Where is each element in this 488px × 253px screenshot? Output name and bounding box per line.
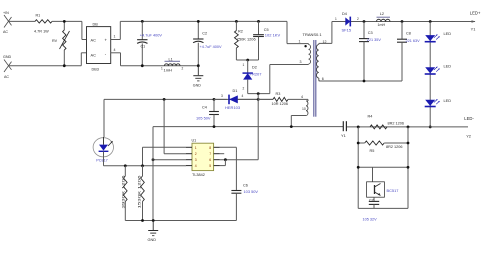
svg-text:4: 4 (114, 48, 116, 52)
wire pin5 tie (220, 160, 226, 166)
svg-text:AC: AC (3, 30, 8, 34)
wire Q1 top row (358, 166, 408, 168)
svg-text:105 32V: 105 32V (363, 218, 378, 222)
svg-text:HER103: HER103 (225, 105, 241, 110)
svg-text:LED: LED (444, 98, 452, 103)
junction C2 top (197, 20, 200, 23)
svg-text:BC517: BC517 (387, 188, 399, 193)
led LED3 (425, 98, 452, 107)
svg-text:C8: C8 (406, 32, 411, 36)
svg-text:4: 4 (195, 164, 197, 168)
capacitor C7 (363, 197, 380, 221)
svg-text:U1: U1 (192, 139, 197, 143)
capacitor C1 (137, 21, 162, 65)
svg-text:C7: C7 (369, 198, 374, 202)
svg-text:GND: GND (3, 55, 12, 59)
junction C1 top (141, 20, 144, 23)
wire gnd drop (152, 127, 154, 221)
svg-text:L1: L1 (169, 57, 173, 61)
svg-text:AC: AC (91, 37, 97, 42)
svg-text:Y1: Y1 (341, 133, 346, 138)
wire sense bottom row (358, 207, 408, 209)
diode D4 (335, 12, 359, 33)
wire top rail HV+ (120, 20, 287, 22)
svg-text:+IN: +IN (3, 11, 9, 15)
resistor R5 (358, 141, 408, 153)
port LED- label (464, 116, 474, 138)
junction R4 right (407, 126, 410, 129)
svg-text:1: 1 (299, 39, 301, 43)
junction VCC-pin2 riser (163, 98, 166, 101)
junction R5 left (357, 142, 360, 145)
svg-text:R2: R2 (238, 29, 243, 33)
svg-text:C5: C5 (264, 28, 269, 32)
svg-text:Y1: Y1 (471, 26, 476, 31)
junction C2 bottom (197, 64, 200, 67)
svg-text:5: 5 (209, 164, 211, 168)
wire pin7 stub (220, 153, 225, 155)
svg-text:1: 1 (114, 35, 116, 39)
svg-text:RV: RV (52, 39, 58, 43)
capacitor C2 (193, 21, 222, 65)
svg-text:C1: C1 (141, 45, 146, 49)
ic U1 TL3842 (186, 139, 220, 177)
port +IN (AC input connector X1) (3, 11, 12, 34)
resistor R4 (368, 115, 404, 129)
svg-text:221 35V: 221 35V (367, 38, 382, 42)
svg-text:AC: AC (91, 53, 97, 58)
wire primary gnd rail (153, 126, 343, 128)
svg-text:1mH: 1mH (378, 23, 386, 27)
svg-text:D4: D4 (342, 12, 347, 16)
junction gnd rail R7 (141, 219, 144, 222)
svg-text:Y2: Y2 (466, 134, 471, 139)
wire bridge out- (111, 48, 121, 66)
diode D2 (243, 60, 263, 94)
svg-text:D2: D2 (252, 65, 257, 69)
svg-text:3930K 1206: 3930K 1206 (120, 176, 125, 209)
wire pin1 (143, 147, 187, 166)
junction C5 top (257, 20, 260, 23)
svg-text:3: 3 (221, 94, 223, 98)
wire L-in top (9, 20, 36, 22)
led LED1 (425, 31, 452, 42)
diode D1 (214, 89, 258, 110)
svg-text:103 50V: 103 50V (244, 189, 259, 194)
svg-text:1: 1 (335, 17, 337, 21)
svg-text:4: 4 (242, 94, 244, 98)
svg-text:105 50V: 105 50V (196, 116, 211, 121)
svg-text:3: 3 (300, 60, 302, 64)
svg-text:R3: R3 (276, 92, 281, 96)
wire secondary gnd rail (319, 80, 402, 82)
transformer T1 TRANS0.1 (291, 22, 332, 127)
wire bridge out+ (111, 21, 121, 39)
junction LED column top (429, 20, 432, 23)
svg-text:C6: C6 (243, 183, 248, 187)
junction aux node (257, 92, 260, 95)
junction LED column bottom (429, 126, 432, 129)
junction C8 top (401, 20, 404, 23)
svg-text:2: 2 (357, 17, 359, 21)
resistor R1 (34, 13, 52, 33)
varistor RV (52, 21, 70, 65)
svg-text:4.7R 1W: 4.7R 1W (34, 29, 49, 33)
optocoupler U2 PC817 (93, 137, 113, 163)
svg-text:2: 2 (182, 67, 184, 71)
svg-text:C4: C4 (202, 105, 207, 109)
svg-text:7: 7 (209, 152, 211, 156)
junction C3 bottom (363, 80, 366, 83)
junction C4 bottom (213, 125, 216, 128)
wire sense right vert (407, 127, 409, 208)
svg-text:1: 1 (243, 63, 245, 67)
wire pin2 riser (164, 99, 186, 153)
svg-text:DB: DB (93, 23, 99, 27)
svg-text:750K 1206: 750K 1206 (237, 37, 256, 42)
svg-text:LED: LED (444, 64, 452, 69)
junction opto-R7 (141, 164, 144, 167)
wire sense left vert (357, 127, 359, 208)
junction C3 top (363, 20, 366, 23)
capacitor C6 (231, 147, 258, 220)
wire R1 to bridge (52, 20, 82, 22)
svg-text:1530K 1206: 1530K 1206 (136, 176, 141, 209)
wire bottom rail HV- (121, 65, 199, 67)
transistor Q1 BC517 (367, 167, 399, 197)
port GND (AC input connector X2) (3, 55, 12, 79)
svg-text:2: 2 (243, 87, 245, 91)
resistor R2 (235, 21, 256, 60)
wire LED column (429, 22, 431, 127)
junction aux return (290, 125, 293, 128)
svg-text:3: 3 (195, 158, 197, 162)
junction RV top (63, 20, 66, 23)
inductor L2 (377, 12, 391, 27)
node polarity dot xfmr primary (304, 45, 306, 47)
capacitor C4 (196, 99, 219, 126)
wire out riser (257, 94, 259, 160)
port LED+ label (470, 11, 481, 32)
junction snubber-D2 (246, 59, 249, 62)
wire opto bottom (104, 152, 187, 166)
capacitor C8 (397, 22, 420, 82)
wire secondary top rail (332, 20, 476, 23)
wire bottom gnd rail (125, 220, 236, 222)
svg-text:DB3: DB3 (92, 68, 99, 72)
svg-text:8R2 1206: 8R2 1206 (386, 145, 402, 149)
svg-text:102 1KV: 102 1KV (265, 33, 281, 38)
junction VCC-out crossing (257, 98, 260, 101)
junction Q1 row left (357, 166, 360, 169)
svg-text:GND: GND (148, 238, 157, 242)
svg-text:12: 12 (323, 40, 327, 44)
svg-text:1mH: 1mH (164, 68, 173, 73)
ground GND2 (148, 221, 159, 243)
wire pin3 gray (153, 159, 186, 161)
wire snubber bottom (236, 59, 258, 61)
wire pin8 out (220, 146, 237, 148)
junction R2 top (235, 20, 238, 23)
wire bridge AC1 riser (82, 21, 87, 39)
capacitor Y1 (341, 121, 346, 138)
wire HV+ to xfmr pin1 (287, 21, 305, 43)
svg-text:C3: C3 (368, 31, 373, 35)
svg-text:FR207: FR207 (250, 71, 263, 76)
svg-text:L2: L2 (380, 12, 384, 16)
junction opto-R6 (124, 164, 127, 167)
svg-text:2: 2 (195, 152, 197, 156)
svg-text:TL3842: TL3842 (192, 173, 205, 177)
svg-text:1: 1 (195, 146, 197, 150)
svg-text:+4.7uF 400V: +4.7uF 400V (200, 45, 223, 49)
junction Q1 row right (407, 166, 410, 169)
junction RV bottom (63, 64, 66, 67)
junction gnd rail drop (152, 219, 155, 222)
resistor R3 (258, 92, 308, 106)
wire D2 bottom (248, 93, 270, 95)
junction pin3 gnd (152, 158, 155, 161)
svg-text:C2: C2 (202, 32, 207, 36)
svg-text:10: 10 (302, 107, 306, 111)
led LED2 (425, 64, 452, 75)
svg-text:GND: GND (193, 84, 201, 88)
capacitor C3 (359, 22, 381, 82)
svg-text:D1: D1 (233, 89, 238, 93)
svg-text:LED-: LED- (464, 116, 474, 121)
svg-text:R5: R5 (370, 149, 375, 153)
junction pin5-6 (224, 158, 227, 161)
svg-text:AC: AC (4, 75, 9, 79)
svg-text:SF15: SF15 (342, 28, 352, 33)
svg-text:1: 1 (161, 67, 163, 71)
svg-text:4: 4 (301, 95, 303, 99)
svg-text:6: 6 (209, 158, 211, 162)
svg-text:PC817: PC817 (96, 159, 108, 163)
bridge rectifier DB3 (87, 23, 111, 72)
wire VCC rail (104, 98, 273, 100)
junction R5 right (407, 142, 410, 145)
svg-text:R1: R1 (36, 13, 41, 17)
wire primary return riser (270, 60, 305, 94)
ground GND1 (below C2) (193, 66, 204, 88)
inductor L1 (161, 57, 184, 72)
junction C4 top (213, 98, 216, 101)
svg-text:+4.7uF 400V: +4.7uF 400V (140, 34, 163, 38)
svg-text:10R 1206: 10R 1206 (272, 102, 288, 106)
svg-text:TRANS0.1: TRANS0.1 (303, 32, 323, 37)
svg-text:8R2 1206: 8R2 1206 (388, 122, 404, 126)
resistor R7 (136, 166, 144, 221)
svg-text:LED: LED (444, 31, 452, 36)
svg-text:221 63V: 221 63V (406, 39, 421, 43)
capacitor C5 (253, 21, 280, 60)
wire LED- rail (346, 126, 468, 128)
svg-text:8: 8 (209, 146, 211, 150)
wire bridge AC2 riser (81, 53, 86, 66)
junction C1 bottom (141, 64, 144, 67)
wire opto top riser (103, 99, 105, 137)
wire L-in bottom (9, 65, 82, 67)
junction R4 left (357, 126, 360, 129)
svg-text:LED+: LED+ (470, 11, 481, 16)
resistor R6 (120, 166, 127, 221)
svg-text:R4: R4 (368, 115, 373, 119)
wire pin6 gray (220, 159, 259, 161)
